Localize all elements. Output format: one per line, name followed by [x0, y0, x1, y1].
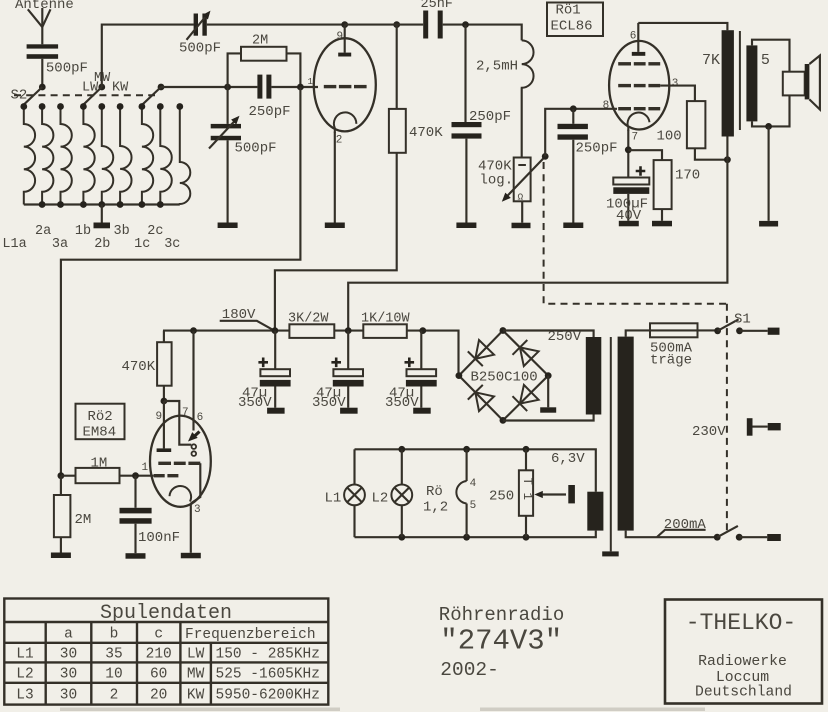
EM84 pin 7 wire	[164, 401, 191, 445]
transformer 6.3V secondary winding	[587, 492, 603, 531]
svg-text:EM84: EM84	[83, 424, 117, 440]
tube Rö2 EM84 envelope	[150, 416, 211, 507]
svg-text:3: 3	[672, 78, 679, 90]
svg-text:1b: 1b	[75, 224, 91, 239]
svg-text:Spulendaten: Spulendaten	[100, 602, 232, 625]
wire primary bottom to B+	[726, 137, 728, 160]
svg-text:Radiowerke: Radiowerke	[698, 654, 787, 670]
resistor 470K plate load	[396, 25, 398, 109]
wire primary bottom	[626, 531, 718, 538]
wire 6.3V top rail	[355, 449, 596, 491]
svg-text:5: 5	[470, 500, 477, 512]
potentiometer 470K log volume	[514, 158, 531, 202]
triode cathode to ground	[334, 132, 336, 223]
svg-text:7K: 7K	[702, 52, 720, 69]
ground 250pF pentode grid	[563, 223, 583, 229]
wire trimmer to triode plate	[207, 24, 345, 26]
switch S1 upper pole	[714, 327, 721, 334]
ground speaker secondary	[759, 221, 778, 227]
svg-text:3K/2W: 3K/2W	[288, 312, 329, 327]
transformer core to ground	[610, 337, 612, 551]
svg-text:60: 60	[150, 667, 167, 683]
wire MW riser to top	[102, 25, 194, 87]
svg-text:1M: 1M	[91, 456, 108, 472]
tube heaters Rö 1,2	[463, 446, 470, 453]
wire S2 to grid network	[161, 86, 257, 88]
capacitor 47u 350V no3	[420, 331, 422, 370]
svg-text:B250C100: B250C100	[471, 370, 538, 386]
node grid network left	[224, 84, 231, 91]
ground 250pF detector	[456, 223, 476, 229]
resistor 2M to ground	[60, 476, 62, 495]
mains plug middle contact	[747, 418, 753, 436]
ground tuning capacitor	[218, 223, 238, 229]
bus junction	[80, 201, 87, 208]
pentode anode	[637, 23, 639, 52]
svg-text:KW: KW	[187, 688, 205, 704]
svg-text:470K: 470K	[122, 359, 156, 375]
inductor 2.5mH RF choke	[522, 40, 534, 88]
svg-text:Deutschland: Deutschland	[695, 685, 792, 701]
coil common bus wire	[24, 203, 180, 205]
ground EM84 cathode	[181, 553, 201, 559]
resistor 470K EM84 supply	[163, 331, 165, 343]
coil L1c	[142, 107, 153, 205]
svg-text:1: 1	[308, 77, 313, 87]
bridge minus to ground	[547, 376, 549, 408]
node screen supply	[724, 156, 731, 163]
svg-text:ECL86: ECL86	[551, 19, 593, 35]
svg-text:20: 20	[150, 688, 167, 704]
resistor 170 cathode	[654, 160, 672, 209]
svg-text:L1a: L1a	[2, 237, 26, 252]
svg-text:7: 7	[632, 132, 639, 144]
trimmer capacitor 500pF series	[194, 14, 198, 36]
svg-text:9: 9	[156, 411, 163, 423]
svg-text:250pF: 250pF	[469, 109, 511, 125]
node after 3K	[345, 327, 352, 334]
svg-text:"274V3": "274V3"	[440, 625, 562, 658]
node detector	[462, 21, 469, 28]
svg-text:350V: 350V	[385, 395, 419, 411]
wire choke to volume pot	[521, 88, 523, 158]
svg-text:30: 30	[60, 688, 77, 704]
switch S2 blade 2	[83, 87, 102, 105]
svg-text:-THELKO-: -THELKO-	[686, 610, 796, 636]
svg-text:40V: 40V	[616, 208, 642, 224]
bus junction	[117, 201, 124, 208]
bus junction	[139, 201, 146, 208]
coil L1b	[83, 107, 94, 205]
capacitor 25nF coupling	[423, 11, 428, 39]
coil bus ground stub	[101, 205, 103, 223]
transformer 5 ohm secondary winding	[746, 45, 757, 121]
potentiometer T1 250 hum balance	[523, 446, 530, 453]
node after 1K	[419, 327, 426, 334]
EM84 grid dashes row 1	[158, 462, 171, 465]
node EM84 supply	[190, 327, 197, 334]
pentode cathode hook	[628, 113, 650, 131]
svg-text:T 1: T 1	[520, 478, 534, 501]
svg-text:500pF: 500pF	[235, 141, 277, 157]
svg-text:470K: 470K	[409, 125, 443, 141]
svg-text:1K/10W: 1K/10W	[361, 312, 411, 327]
tube Rö1 pentode envelope	[609, 41, 669, 130]
capacitor 100nF	[134, 476, 136, 508]
svg-text:3: 3	[194, 504, 201, 516]
svg-text:3a: 3a	[52, 237, 68, 252]
svg-text:Rö2: Rö2	[88, 409, 113, 425]
svg-text:L1: L1	[325, 491, 342, 507]
svg-text:c: c	[154, 627, 163, 643]
ground 100nF	[126, 553, 146, 559]
svg-text:8: 8	[603, 100, 610, 112]
EM84 grid dashes row 2	[154, 474, 165, 477]
svg-text:Rö1: Rö1	[556, 2, 581, 18]
label box Rö1 ECL86	[547, 3, 603, 37]
bus junction	[157, 201, 164, 208]
variable capacitor 500pF tuning	[227, 87, 229, 124]
switch S1 lower pole	[714, 534, 721, 541]
svg-text:2002-: 2002-	[440, 659, 499, 681]
svg-text:6,3V: 6,3V	[551, 451, 585, 467]
ground 100uF	[619, 221, 639, 227]
wire B+ rail 180V	[163, 331, 459, 376]
wire 6.3V bottom rail	[355, 531, 596, 538]
EM84 row1 to pin 3	[191, 463, 201, 503]
lamp L2	[398, 446, 405, 453]
svg-text:100nF: 100nF	[138, 530, 180, 546]
svg-text:350V: 350V	[312, 395, 346, 411]
svg-text:a: a	[64, 627, 73, 643]
svg-text:LW: LW	[187, 647, 205, 663]
svg-text:100: 100	[657, 129, 682, 145]
pot to ground	[521, 201, 523, 222]
svg-text:10: 10	[105, 667, 122, 683]
pentode g1 dashes	[618, 107, 631, 110]
mains plug pin bottom	[767, 534, 781, 541]
ground 170	[652, 221, 672, 227]
ground volume pot	[512, 223, 531, 229]
triode anode	[344, 25, 346, 53]
svg-text:1,2: 1,2	[423, 500, 448, 516]
transformer core	[739, 31, 741, 130]
svg-text:Ω: Ω	[518, 192, 524, 203]
label box Rö2 EM84	[76, 404, 125, 440]
svg-text:1: 1	[142, 462, 149, 474]
EM84 cathode hook	[170, 486, 192, 502]
svg-text:S1: S1	[734, 311, 751, 327]
switch S2 mechanical dashed link	[14, 94, 155, 96]
wire to mains pin top	[740, 330, 768, 332]
EM84 contact circles	[192, 444, 197, 449]
transformer 7K primary winding	[722, 30, 734, 136]
svg-text:b: b	[110, 627, 119, 643]
wire cathode to resistor 170	[628, 150, 662, 160]
switch S2 pole node KW side	[158, 84, 165, 91]
wire primary top to fuse	[626, 330, 650, 336]
svg-text:3b: 3b	[114, 224, 130, 239]
wire secondary bottom	[752, 95, 790, 126]
wire pentode plate to transformer	[638, 23, 727, 30]
capacitor 250pF pentode grid	[572, 109, 574, 124]
svg-text:L1: L1	[16, 647, 33, 663]
EM84 pin 9 target	[163, 401, 165, 448]
svg-text:KW: KW	[112, 80, 129, 95]
node grid filter	[570, 105, 577, 112]
node cathode	[625, 146, 632, 153]
T1 wiper arrow	[539, 493, 566, 495]
svg-text:log.: log.	[480, 173, 514, 189]
svg-text:2a: 2a	[35, 224, 51, 239]
svg-text:9: 9	[337, 31, 344, 43]
resistor 1K/10W	[363, 324, 407, 338]
pentode g2 dashes	[618, 84, 631, 87]
svg-text:250pF: 250pF	[576, 140, 618, 156]
svg-text:500pF: 500pF	[179, 41, 221, 57]
node speaker ground tap	[765, 123, 772, 130]
EM84 pin 6 wire from rail	[192, 331, 194, 431]
coil L2c	[160, 107, 171, 205]
svg-text:Rö: Rö	[426, 484, 443, 500]
capacitor 500pF antenna	[27, 44, 58, 48]
svg-text:250pF: 250pF	[249, 104, 291, 120]
node plate	[393, 21, 400, 28]
coil L2b	[102, 107, 113, 205]
triode grid dashes	[324, 85, 337, 88]
diode top-right	[520, 347, 539, 366]
coil L3b	[120, 107, 131, 205]
svg-text:2M: 2M	[75, 512, 92, 528]
pot wiper arrow	[507, 158, 544, 197]
coil L3c	[180, 107, 191, 205]
svg-text:2,5mH: 2,5mH	[476, 59, 518, 75]
capacitor 100uF 40V cathode bypass	[613, 178, 649, 185]
resistor 100 screen	[660, 86, 695, 102]
table Spulendaten	[4, 599, 328, 705]
bus junction	[98, 201, 105, 208]
EM84 deflection arrow	[193, 432, 200, 438]
svg-text:Röhrenradio: Röhrenradio	[439, 604, 564, 626]
resistor 1M grid	[58, 472, 65, 479]
bus junction	[39, 201, 46, 208]
svg-text:525 -1605KHz: 525 -1605KHz	[216, 667, 320, 683]
ground transformer core	[602, 551, 619, 556]
ground bridge	[540, 407, 556, 412]
transformer 230V primary winding	[618, 337, 634, 531]
node grid	[297, 84, 304, 91]
svg-text:30: 30	[60, 647, 77, 663]
svg-text:5: 5	[761, 52, 770, 69]
svg-text:Frequenzbereich: Frequenzbereich	[185, 627, 316, 643]
capacitor 47u 350V no2	[347, 331, 349, 370]
svg-text:L2: L2	[16, 667, 33, 683]
svg-text:350V: 350V	[238, 395, 272, 411]
svg-text:2M: 2M	[252, 34, 268, 49]
svg-text:4: 4	[470, 478, 477, 490]
svg-text:1c: 1c	[134, 237, 150, 252]
triode plate node	[341, 21, 348, 28]
svg-text:2: 2	[336, 134, 343, 146]
wire B+ feed to output stage	[348, 160, 727, 331]
svg-text:250: 250	[489, 489, 514, 505]
wire secondary top to speaker	[752, 40, 790, 72]
switch S2 blade 1	[24, 87, 43, 105]
ground 2M	[51, 553, 71, 559]
capacitor 250pF shunt detector	[464, 25, 466, 122]
mechanical link pot to mains switch dashed	[544, 162, 727, 304]
wire 25nF to detector node	[443, 25, 522, 41]
diode bottom-right	[520, 385, 539, 404]
node bridge AC bottom	[500, 417, 507, 424]
transformer 250V secondary winding	[586, 337, 602, 415]
svg-text:230V: 230V	[692, 424, 726, 440]
mains plug pin top	[768, 328, 780, 335]
diode bottom-left	[475, 392, 494, 411]
svg-text:L2: L2	[372, 491, 389, 507]
capacitor 250pF series grid	[257, 75, 262, 99]
svg-text:6: 6	[630, 31, 637, 43]
EM84 pin 3 to ground	[190, 503, 192, 552]
svg-text:7: 7	[182, 407, 189, 419]
node bridge minus	[545, 372, 552, 379]
svg-text:150 - 285KHz: 150 - 285KHz	[216, 647, 320, 663]
capacitor 47u 350V no1	[274, 331, 276, 370]
svg-text:25nF: 25nF	[421, 0, 453, 12]
ground coil bus	[94, 223, 111, 229]
ground triode cathode	[325, 223, 345, 229]
svg-text:35: 35	[105, 647, 122, 663]
node bridge AC top	[500, 327, 507, 334]
diode top-left	[475, 340, 494, 359]
pentode g3 dashes	[618, 62, 631, 65]
wire bridge bottom to winding bottom	[503, 415, 594, 421]
node bridge plus	[456, 372, 463, 379]
svg-text:500pF: 500pF	[46, 61, 88, 77]
node EM84 pin9/7	[161, 398, 168, 405]
svg-text:MW: MW	[187, 667, 205, 683]
speaker	[783, 72, 805, 96]
svg-text:L3: L3	[16, 688, 33, 704]
label box THELKO	[665, 600, 822, 704]
tube Rö1 triode envelope	[314, 38, 376, 131]
svg-text:Antenne: Antenne	[15, 0, 74, 13]
pentode cathode wire	[627, 130, 629, 178]
coil L1a	[24, 107, 35, 205]
svg-text:2b: 2b	[94, 237, 110, 252]
wire to mains pin bottom	[739, 536, 767, 538]
svg-text:30: 30	[60, 667, 77, 683]
svg-text:6: 6	[197, 412, 204, 424]
svg-text:170: 170	[675, 168, 700, 184]
wire to chassis ground	[768, 126, 770, 220]
triode cathode hook	[334, 112, 356, 133]
resistor 3K/2W	[289, 324, 334, 338]
wire plate node to 25nF	[345, 24, 424, 26]
svg-text:2: 2	[110, 688, 119, 704]
node pot wiper	[542, 153, 549, 160]
coil L2a	[42, 107, 53, 205]
switch S2 pole node antenna	[39, 84, 46, 91]
lamp L1	[353, 449, 355, 484]
bus junction	[57, 201, 64, 208]
wire bridge to 250V winding	[503, 331, 594, 338]
svg-text:träge: träge	[650, 353, 692, 369]
fuse 500mA	[650, 323, 698, 337]
svg-text:5950-6200KHz: 5950-6200KHz	[216, 688, 320, 704]
antenna	[28, 9, 43, 27]
coil L3a	[61, 107, 72, 205]
switch S2 blade 3	[142, 87, 161, 105]
bridge rectifier B250C100 diamond	[459, 331, 548, 421]
switch S2 pole node MW	[98, 84, 105, 91]
svg-text:210: 210	[146, 647, 172, 663]
wire AGC from grid node to EM84	[61, 87, 301, 476]
node 180V	[272, 327, 279, 334]
wire wiper to pentode grid	[545, 109, 617, 157]
resistor 2M grid leak	[228, 53, 241, 87]
svg-text:250V: 250V	[548, 329, 582, 345]
svg-text:3c: 3c	[164, 237, 180, 252]
